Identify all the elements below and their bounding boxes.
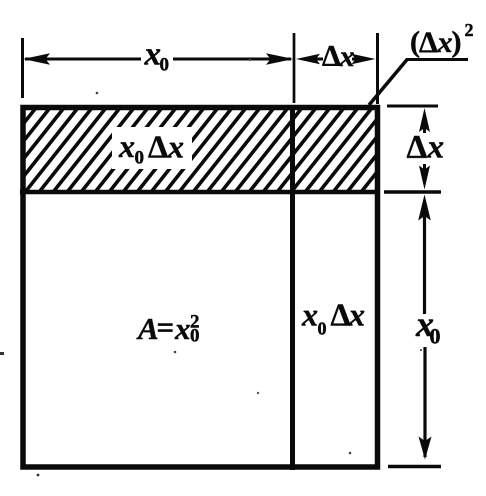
- x0 dimension upper shaft (right side): [423, 212, 426, 314]
- x0 dimension lower shaft (right side): [423, 347, 426, 457]
- dx dimension lower shaft (right side): [423, 164, 426, 177]
- outer square outline (side x0 + dx): [23, 108, 378, 468]
- svg-text:Δ: Δ: [419, 26, 438, 59]
- dx dimension right tail line (top): [352, 58, 357, 61]
- svg-text:x: x: [427, 130, 445, 166]
- extension line left (top dimension): [21, 38, 24, 98]
- internal horizontal line at y = dx from top: [20, 190, 380, 195]
- svg-text:=: =: [157, 310, 175, 345]
- svg-text:x: x: [144, 37, 162, 73]
- right dimension tick 2 (between dx and x0 spans): [384, 190, 441, 194]
- svg-text:x: x: [301, 297, 318, 333]
- svg-text:0: 0: [318, 319, 327, 339]
- svg-text:A: A: [136, 311, 159, 346]
- svg-text:Δ: Δ: [322, 40, 341, 73]
- dx dimension upper shaft (right side): [423, 120, 426, 133]
- dx dimension down arrowhead (right side): [419, 166, 430, 190]
- svg-text:Δ: Δ: [407, 130, 428, 166]
- scan noise dot: [257, 392, 259, 394]
- scan noise dot: [249, 59, 251, 61]
- svg-text:0: 0: [190, 326, 200, 347]
- extension line middle (top dimension): [293, 33, 296, 103]
- leader horizontal segment under (dx)^2: [406, 58, 468, 61]
- x0 dimension down arrowhead (right side): [419, 437, 432, 460]
- extension line right (top dimension): [376, 33, 379, 104]
- scan noise dot: [96, 92, 99, 95]
- dx dimension left tail line (top): [314, 58, 323, 61]
- svg-text:x: x: [167, 129, 184, 165]
- right dimension tick 3 (bottom of x0 span): [388, 465, 441, 469]
- x0 dimension line right segment (top): [173, 58, 291, 61]
- x0 dimension up arrowhead (right side): [418, 195, 431, 221]
- svg-text:0: 0: [160, 55, 170, 76]
- hatching of top strip (area 2*x0*dx + (dx)^2): [0, 104, 445, 196]
- scan noise dot: [174, 351, 177, 354]
- leader diagonal segment to corner square: [369, 59, 408, 105]
- x0 dimension line left segment (top): [25, 58, 141, 61]
- svg-text:x: x: [348, 297, 365, 333]
- dx dimension up arrowhead (right side): [419, 108, 430, 132]
- svg-text:x: x: [118, 128, 135, 164]
- scan noise dot: [349, 452, 352, 455]
- svg-text:): ): [452, 26, 462, 59]
- svg-text:x: x: [174, 311, 191, 346]
- svg-text:Δ: Δ: [148, 129, 168, 165]
- x0 dimension right arrowhead: [266, 53, 294, 65]
- svg-text:2: 2: [465, 20, 474, 40]
- svg-text:x: x: [339, 40, 355, 73]
- svg-text:0: 0: [430, 324, 441, 349]
- white knockout behind strip label: [112, 127, 192, 169]
- dx dimension left arrowhead (top): [296, 54, 320, 64]
- svg-text:Δ: Δ: [331, 297, 351, 333]
- scan noise dot: [420, 349, 422, 351]
- dx dimension right arrowhead (top): [352, 54, 376, 64]
- right dimension tick 1 (top of dx span): [387, 105, 438, 108]
- internal vertical line at x = x0: [290, 105, 295, 470]
- x0 dimension left arrowhead: [23, 53, 50, 65]
- svg-text:0: 0: [135, 148, 145, 169]
- svg-text:x: x: [437, 26, 453, 59]
- scan noise tick at left margin: [0, 352, 4, 355]
- scan noise dot: [37, 474, 40, 477]
